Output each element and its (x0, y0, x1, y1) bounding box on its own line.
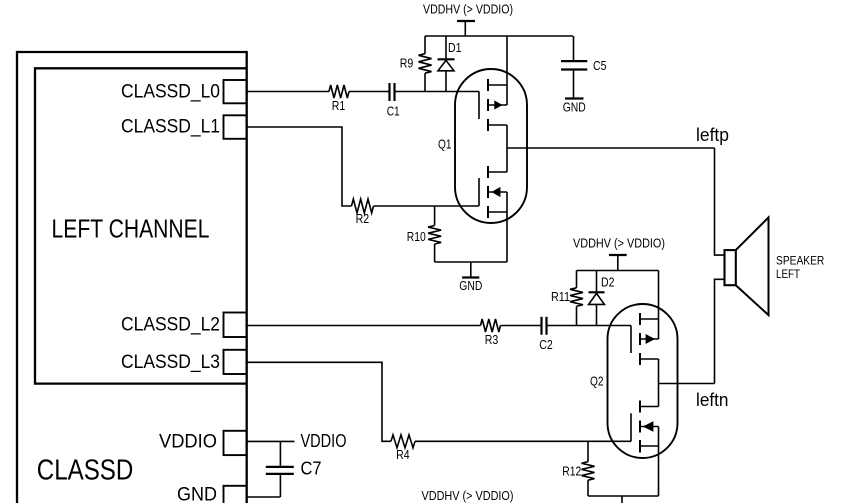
wire R2 to Q1 NMOS gate (374, 205, 480, 207)
svg-text:Q1: Q1 (438, 137, 452, 152)
svg-text:R4: R4 (396, 447, 410, 462)
Q2 NMOS body stub (640, 426, 659, 428)
wire VDDHV rail 1 (425, 35, 573, 37)
capacitor C7 (279, 441, 281, 465)
Q1 PMOS channel segments (487, 79, 489, 131)
Q2 PMOS drain stub (640, 358, 659, 360)
Q2 PMOS source stub (640, 318, 659, 320)
Q2 stadium outline (608, 304, 678, 458)
speaker body (725, 250, 736, 285)
speaker left wiring top (715, 148, 726, 255)
pin GND (224, 486, 247, 503)
Q1 NMOS gate bar (478, 178, 480, 206)
Q2 PMOS channel segments (639, 313, 641, 365)
Q2 PMOS body stub (640, 338, 659, 340)
svg-text:R1: R1 (332, 98, 346, 113)
wire Q2 NMOS drain to output (658, 384, 660, 407)
wire Q1 NMOS source down (506, 192, 508, 262)
resistor R11 (576, 271, 578, 288)
wire CLASSD_L1 to R2 (247, 127, 352, 206)
pin CLASSD_L3 (224, 350, 247, 374)
svg-text:C5: C5 (593, 58, 607, 73)
Q2 PMOS body arrow (646, 334, 655, 344)
svg-text:C1: C1 (387, 103, 400, 118)
svg-text:Q2: Q2 (590, 374, 604, 389)
wire Q1 bottom node (435, 261, 507, 263)
Q2 NMOS body arrow (643, 421, 654, 432)
diode D1 (445, 36, 447, 58)
svg-text:CLASSD_L3: CLASSD_L3 (121, 352, 220, 373)
wire Q1 PMOS drain to output (506, 125, 508, 148)
wire Q2 PMOS drain to output (658, 359, 660, 384)
svg-text:CLASSD_L1: CLASSD_L1 (121, 117, 220, 138)
wire VDDHV rail 2 (577, 270, 659, 272)
svg-text:CLASSD_L0: CLASSD_L0 (121, 82, 220, 103)
wire CLASSD_L0 to R1 (247, 91, 329, 93)
wire Q1 PMOS source to rail (506, 36, 508, 105)
svg-text:VDDHV (> VDDIO): VDDHV (> VDDIO) (423, 2, 513, 17)
svg-text:VDDHV (> VDDIO): VDDHV (> VDDIO) (573, 236, 665, 251)
wire R3 to C2 (501, 325, 541, 327)
svg-text:R3: R3 (485, 332, 499, 347)
svg-text:C2: C2 (539, 337, 553, 352)
svg-text:LEFT: LEFT (776, 267, 800, 281)
ground under C5 (565, 97, 584, 99)
svg-text:R10: R10 (407, 229, 426, 244)
diode D2 (596, 271, 598, 292)
Q1 NMOS drain stub (488, 171, 507, 173)
Q1 NMOS body stub (488, 191, 507, 193)
svg-text:SPEAKER: SPEAKER (776, 253, 824, 267)
Q1 PMOS gate bar (478, 92, 480, 120)
svg-text:R2: R2 (356, 211, 370, 226)
svg-text:R11: R11 (551, 289, 570, 304)
Q1 PMOS body stub (488, 104, 507, 106)
wire R4 to Q2 NMOS gate (415, 440, 631, 442)
svg-text:CLASSD_L2: CLASSD_L2 (121, 315, 220, 336)
wire leftp (507, 147, 715, 149)
resistor R4 (391, 435, 415, 448)
Q1 PMOS body arrow (494, 100, 502, 109)
Q2 NMOS source stub (640, 445, 659, 447)
svg-text:GND: GND (563, 100, 586, 115)
wire Q2 NMOS source down (658, 427, 660, 497)
wire Q2 PMOS source to rail (658, 271, 660, 340)
Q1 PMOS drain stub (488, 124, 507, 126)
speaker cone (736, 217, 769, 315)
resistor R3 (481, 319, 501, 332)
resistor R2 (352, 199, 374, 213)
pin VDDIO (224, 431, 247, 455)
transistor Q1 (438, 36, 527, 262)
svg-text:D1: D1 (448, 40, 462, 55)
Q1 PMOS source stub (488, 84, 507, 86)
ground under Q1 (470, 262, 472, 277)
Q1 stadium outline (455, 69, 527, 223)
svg-text:VDDIO: VDDIO (159, 432, 217, 453)
transistor Q2 (590, 271, 678, 497)
wire C2 to Q2 PMOS gate (548, 325, 632, 327)
svg-text:VDDHV (> VDDIO): VDDHV (> VDDIO) (422, 488, 514, 503)
resistor R12 (587, 441, 589, 461)
svg-text:GND: GND (459, 278, 482, 293)
wire leftn (659, 383, 715, 385)
wire GND pin to C7 (247, 496, 281, 498)
svg-text:R12: R12 (562, 464, 581, 479)
svg-text:LEFT CHANNEL: LEFT CHANNEL (52, 213, 210, 243)
Q1 NMOS source stub (488, 211, 507, 213)
resistor R9 (424, 36, 426, 54)
wire R1 to C1 (349, 91, 389, 93)
capacitor C2 (542, 317, 547, 335)
wire CLASSD_L2 to R3 (247, 325, 481, 327)
svg-text:CLASSD: CLASSD (37, 455, 134, 487)
svg-text:leftn: leftn (696, 390, 729, 410)
svg-text:D2: D2 (601, 274, 615, 289)
speaker left wiring bottom (715, 279, 726, 383)
svg-text:C7: C7 (301, 459, 322, 479)
wire C1 to Q1 PMOS gate (396, 91, 480, 93)
pin CLASSD_L2 (224, 313, 247, 338)
ground stem under Q2 (621, 496, 623, 503)
wire Q2 bottom node (588, 495, 659, 497)
svg-text:VDDIO: VDDIO (301, 431, 347, 451)
Q2 PMOS gate bar (630, 326, 632, 354)
Q2 NMOS channel segments (639, 401, 641, 453)
Q1 NMOS body arrow (491, 187, 500, 197)
capacitor C1 (390, 83, 395, 101)
pin CLASSD_L0 (224, 80, 247, 103)
CLASSD block outer box (17, 52, 247, 503)
Q2 NMOS gate bar (630, 413, 632, 441)
Q2 NMOS drain stub (640, 406, 659, 408)
svg-text:GND: GND (177, 484, 217, 503)
svg-text:leftp: leftp (696, 125, 729, 145)
wire CLASSD_L3 to R4 (247, 362, 391, 441)
LEFT CHANNEL inner box (35, 68, 247, 383)
Q1 NMOS channel segments (487, 166, 489, 218)
resistor R1 (329, 85, 349, 98)
wire Q1 NMOS drain to output (506, 148, 508, 172)
capacitor C5 (573, 36, 575, 60)
svg-text:R9: R9 (400, 55, 414, 70)
pin CLASSD_L1 (224, 115, 247, 139)
resistor R10 (434, 206, 436, 225)
wire VDDIO pin to net (247, 440, 295, 442)
